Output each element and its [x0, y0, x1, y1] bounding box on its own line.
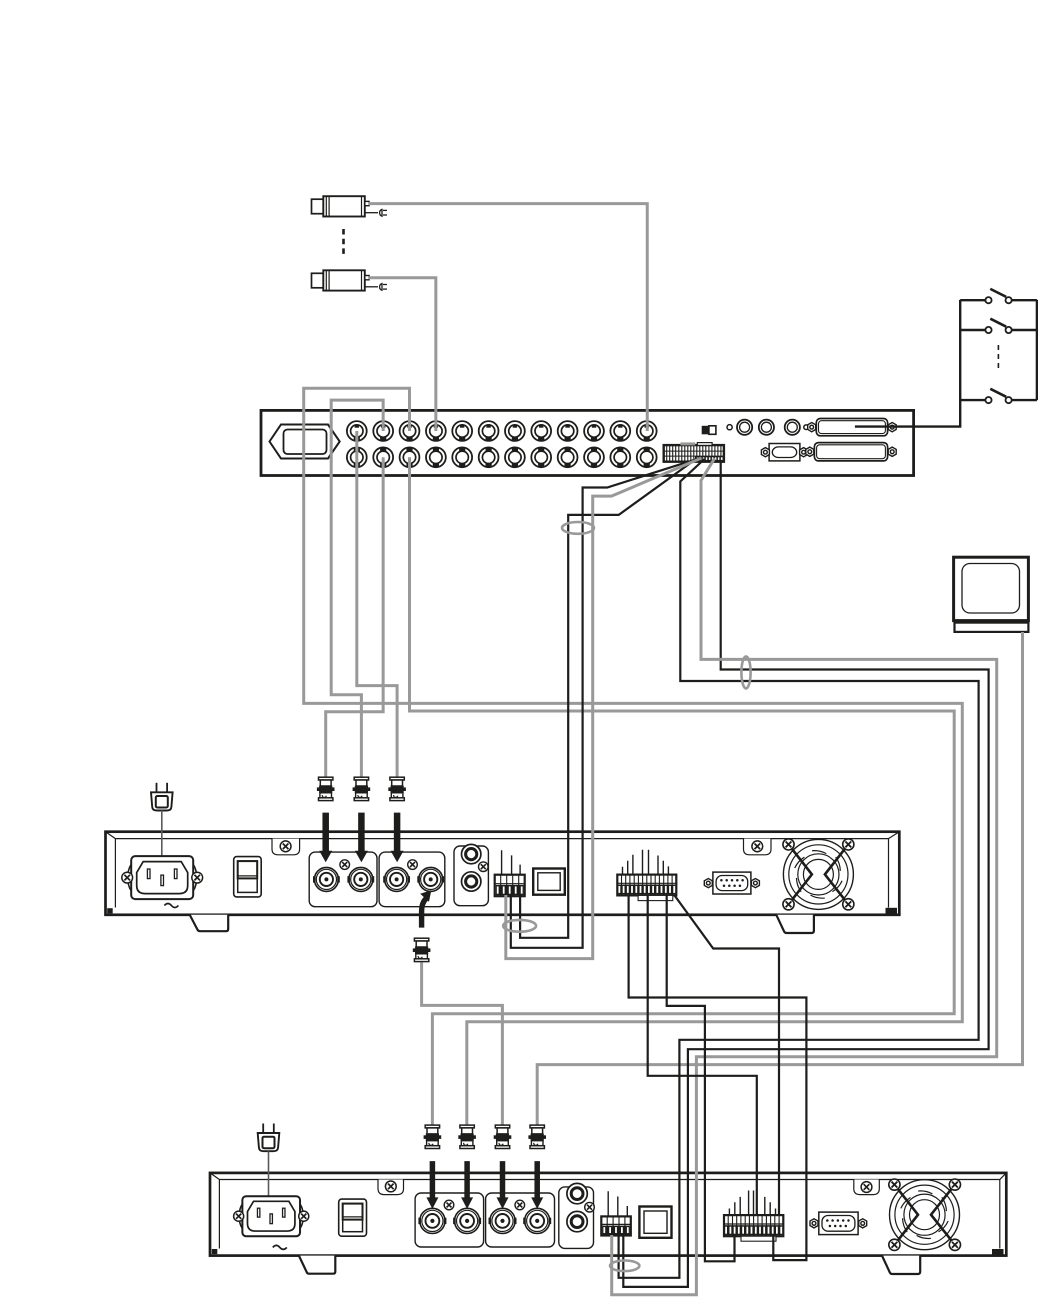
wire monitor to DVR2 plug4	[537, 632, 1022, 1126]
matrix BNC video-out 1	[347, 447, 367, 467]
camera 1	[312, 196, 388, 216]
DVR2 screw between BNC 1-2	[444, 1200, 454, 1210]
monitor	[954, 557, 1029, 632]
matrix BNC video-in 3	[400, 421, 420, 441]
DVR2 BNC video 1	[418, 1208, 446, 1233]
matrix BNC video-out 9	[558, 447, 578, 467]
DVR2 BNC video 3	[489, 1208, 517, 1233]
matrix DB9 rs232	[761, 444, 807, 461]
DVR2 BNC cable plug 2	[458, 1125, 476, 1148]
DVR2 screw tab right	[854, 1180, 880, 1195]
wire matrix out3 to DVR2 plug1	[410, 457, 955, 1126]
DVR1 DB9 rs485	[704, 872, 759, 894]
wire matrix TB gray f to DVR2 small TB	[612, 458, 997, 1295]
DVR1 RCA audio jacks	[462, 844, 481, 863]
alarm switch contact 1	[960, 289, 1037, 303]
DVR1 right foot	[776, 915, 814, 933]
DVR2 BNC video 2	[453, 1208, 481, 1233]
DVR2 audio group box	[559, 1187, 594, 1249]
cable tie ellipse below DVR1 small TB	[503, 920, 536, 932]
DVR2 DB9 rs485	[810, 1212, 867, 1235]
matrix BNC video-out 12	[637, 447, 657, 467]
matrix BNC video-out 11	[610, 447, 630, 467]
DVR1 insert arrow 2	[355, 813, 368, 863]
DVR1 screw between BNC 3-4	[408, 860, 418, 870]
DVR2 big TB lip	[741, 1236, 776, 1241]
matrix round connector 1	[737, 420, 752, 435]
wire matrix TB black b to DVR1 small TB	[511, 459, 699, 948]
DVR1 power plug	[151, 783, 173, 811]
matrix terminal block	[664, 445, 724, 462]
DVR1 audio group box	[454, 846, 488, 906]
alarm switch contact 3	[960, 389, 1037, 403]
DVR1 AC inlet	[122, 856, 203, 899]
DVR1 power cord	[161, 811, 163, 881]
DVR2 cooling fan	[889, 1179, 961, 1250]
matrix BNC video-in 5	[452, 421, 472, 441]
wire camera2 to matrix video-in 4	[368, 278, 435, 431]
matrix TB gray cap	[680, 442, 695, 445]
wire matrix TB gray c to DVR1 small TB	[506, 458, 702, 959]
DVR1 video-out cable plug	[413, 938, 431, 961]
DVR2 small terminal block	[601, 1216, 631, 1235]
DVR2 RCA audio jacks	[567, 1183, 587, 1203]
DVR1 BNC video 4	[417, 867, 444, 891]
DVR1 power switch	[234, 857, 262, 897]
wire matrix in1 to DVR1 plug3	[357, 431, 397, 778]
DVR2 insert arrow 2	[461, 1161, 473, 1209]
DVR2 right foot	[882, 1256, 920, 1274]
DVR2 power cord	[268, 1151, 270, 1218]
DVR2 network connector	[639, 1207, 671, 1238]
wire loop matrix in3 to DVR2 plug2	[304, 388, 963, 1126]
matrix BNC video-out 6	[479, 447, 499, 467]
DVR1 insert arrow 1	[319, 813, 332, 863]
wire matrix out2 to DVR1 plug1	[326, 457, 383, 778]
cable tie ellipse below matrix TB	[562, 522, 594, 534]
DVR1 network connector	[533, 869, 565, 895]
DVR1 small terminal block	[495, 875, 525, 897]
matrix BNC video-out 5	[452, 447, 472, 467]
cable tie ellipse below DVR2 small TB	[610, 1261, 639, 1272]
alarm switch contact 2	[960, 319, 1037, 333]
matrix BNC video-in 7	[505, 421, 525, 441]
DVR2 insert arrow 4	[531, 1161, 543, 1209]
wire DVR1 video-out plug to DVR2 plug3	[422, 962, 503, 1126]
matrix round connector 2	[759, 420, 774, 435]
matrix switcher rear panel	[261, 410, 914, 475]
matrix BNC video-in 8	[531, 421, 551, 441]
DVR2 small TB pins	[608, 1191, 627, 1216]
matrix BNC video-in 6	[479, 421, 499, 441]
wire matrix TB black a to DVR1 small TB	[520, 459, 696, 938]
cable tie ellipse on matrix data wires	[741, 656, 750, 688]
matrix BNC video-out 8	[531, 447, 551, 467]
DVR1 screw tab right	[744, 839, 772, 855]
DVR2 BNC video 4	[523, 1208, 551, 1233]
matrix BNC video-in 12	[637, 421, 657, 441]
DVR2 insert arrow 3	[497, 1161, 509, 1209]
DVR2 insert arrow 1	[426, 1161, 438, 1209]
DVR2 screw between BNC 3-4	[515, 1200, 525, 1210]
DVR1 BNC video 2	[347, 867, 374, 891]
DVR1 RCA screw	[479, 862, 489, 872]
DVR1 video-in group box 2	[379, 852, 445, 907]
camera 1 dashed continuation	[342, 229, 345, 258]
DVR1 rear panel	[106, 832, 900, 915]
matrix small circle left	[727, 425, 732, 430]
DVR2 video-in group box 2	[486, 1193, 555, 1247]
DVR2 BNC cable plug 1	[424, 1125, 442, 1148]
DVR2 video-in group box 1	[415, 1193, 484, 1247]
matrix BNC video-in 4	[426, 421, 446, 441]
matrix BNC video-out 7	[505, 447, 525, 467]
alarm switches dashed continuation	[997, 345, 999, 372]
DVR2 big terminal block	[724, 1215, 783, 1236]
matrix BNC video-in 2	[373, 421, 393, 441]
DVR2 power plug	[258, 1124, 280, 1152]
matrix TB white cap	[697, 443, 712, 446]
matrix BNC video-out 4	[426, 447, 446, 467]
matrix round connector 3	[785, 420, 800, 435]
wire DVR1 TB D diagonal to DVR2 big TB	[675, 895, 780, 1216]
matrix DB25 alarm connector top	[808, 419, 897, 436]
wire matrix TB black e to DVR2 small TB	[623, 462, 988, 1287]
matrix mode switch	[702, 426, 709, 435]
matrix BNC video-out 3	[400, 447, 420, 467]
wire loop matrix in2 to DVR1 plug2	[331, 400, 383, 778]
DVR2 rear panel	[210, 1173, 1006, 1256]
wire DVR1 TB A to DVR2 big TB	[629, 895, 807, 1260]
matrix power inlet	[270, 425, 340, 459]
DVR2 tilde mark	[273, 1245, 287, 1249]
matrix small circle right	[804, 425, 809, 430]
DVR1 BNC cable plug 3	[388, 777, 406, 800]
DVR1 small TB pins	[502, 850, 520, 874]
DVR2 BNC cable plug 4	[528, 1125, 546, 1148]
DVR1 cooling fan	[783, 839, 854, 910]
camera 2	[312, 270, 388, 290]
DVR1 BNC cable plug 1	[317, 777, 335, 800]
DVR1 BNC cable plug 2	[353, 777, 371, 800]
matrix BNC video-in 1	[347, 421, 367, 441]
DVR1 tilde mark	[164, 904, 178, 908]
DVR2 power switch	[339, 1199, 367, 1236]
DVR2 left foot	[299, 1256, 335, 1274]
matrix BNC video-in 9	[558, 421, 578, 441]
DVR2 AC inlet	[234, 1196, 309, 1236]
matrix BNC video-out 2	[373, 447, 393, 467]
DVR2 BNC cable plug 3	[494, 1125, 512, 1148]
DVR2 big TB pins	[729, 1191, 775, 1216]
matrix BNC video-in 10	[584, 421, 604, 441]
DVR1 screw between BNC 1-2	[340, 860, 350, 870]
wire matrix TB black d to DVR2 small TB	[619, 459, 979, 1278]
DVR1 screw tab left	[272, 839, 300, 855]
DVR2 screw tab left	[378, 1180, 404, 1195]
DVR1 video-in group box 1	[309, 852, 377, 907]
DVR1 big TB lip	[638, 895, 673, 900]
DVR1 video-out bent arrow	[422, 898, 427, 927]
matrix DB25 connector bottom	[806, 443, 896, 461]
wire DVR1 TB C to DVR2 big TB	[667, 895, 735, 1261]
wire DVR1 TB B to DVR2 big TB	[648, 895, 757, 1216]
DVR1 insert arrow 3	[391, 813, 404, 863]
alarm switch bus right	[1036, 300, 1038, 400]
DVR1 big terminal block	[617, 875, 676, 896]
DVR1 big TB pins	[623, 850, 669, 875]
DVR2 RCA screw	[585, 1202, 595, 1212]
matrix BNC video-out 10	[584, 447, 604, 467]
DVR1 BNC video 1	[313, 867, 340, 891]
matrix BNC video-in 11	[610, 421, 630, 441]
wire camera1 to matrix video-in 12	[368, 204, 647, 431]
DVR1 BNC video 3	[383, 867, 410, 891]
DVR1 left foot	[190, 915, 229, 931]
wire matrix DB25 to alarm switches	[855, 300, 960, 427]
